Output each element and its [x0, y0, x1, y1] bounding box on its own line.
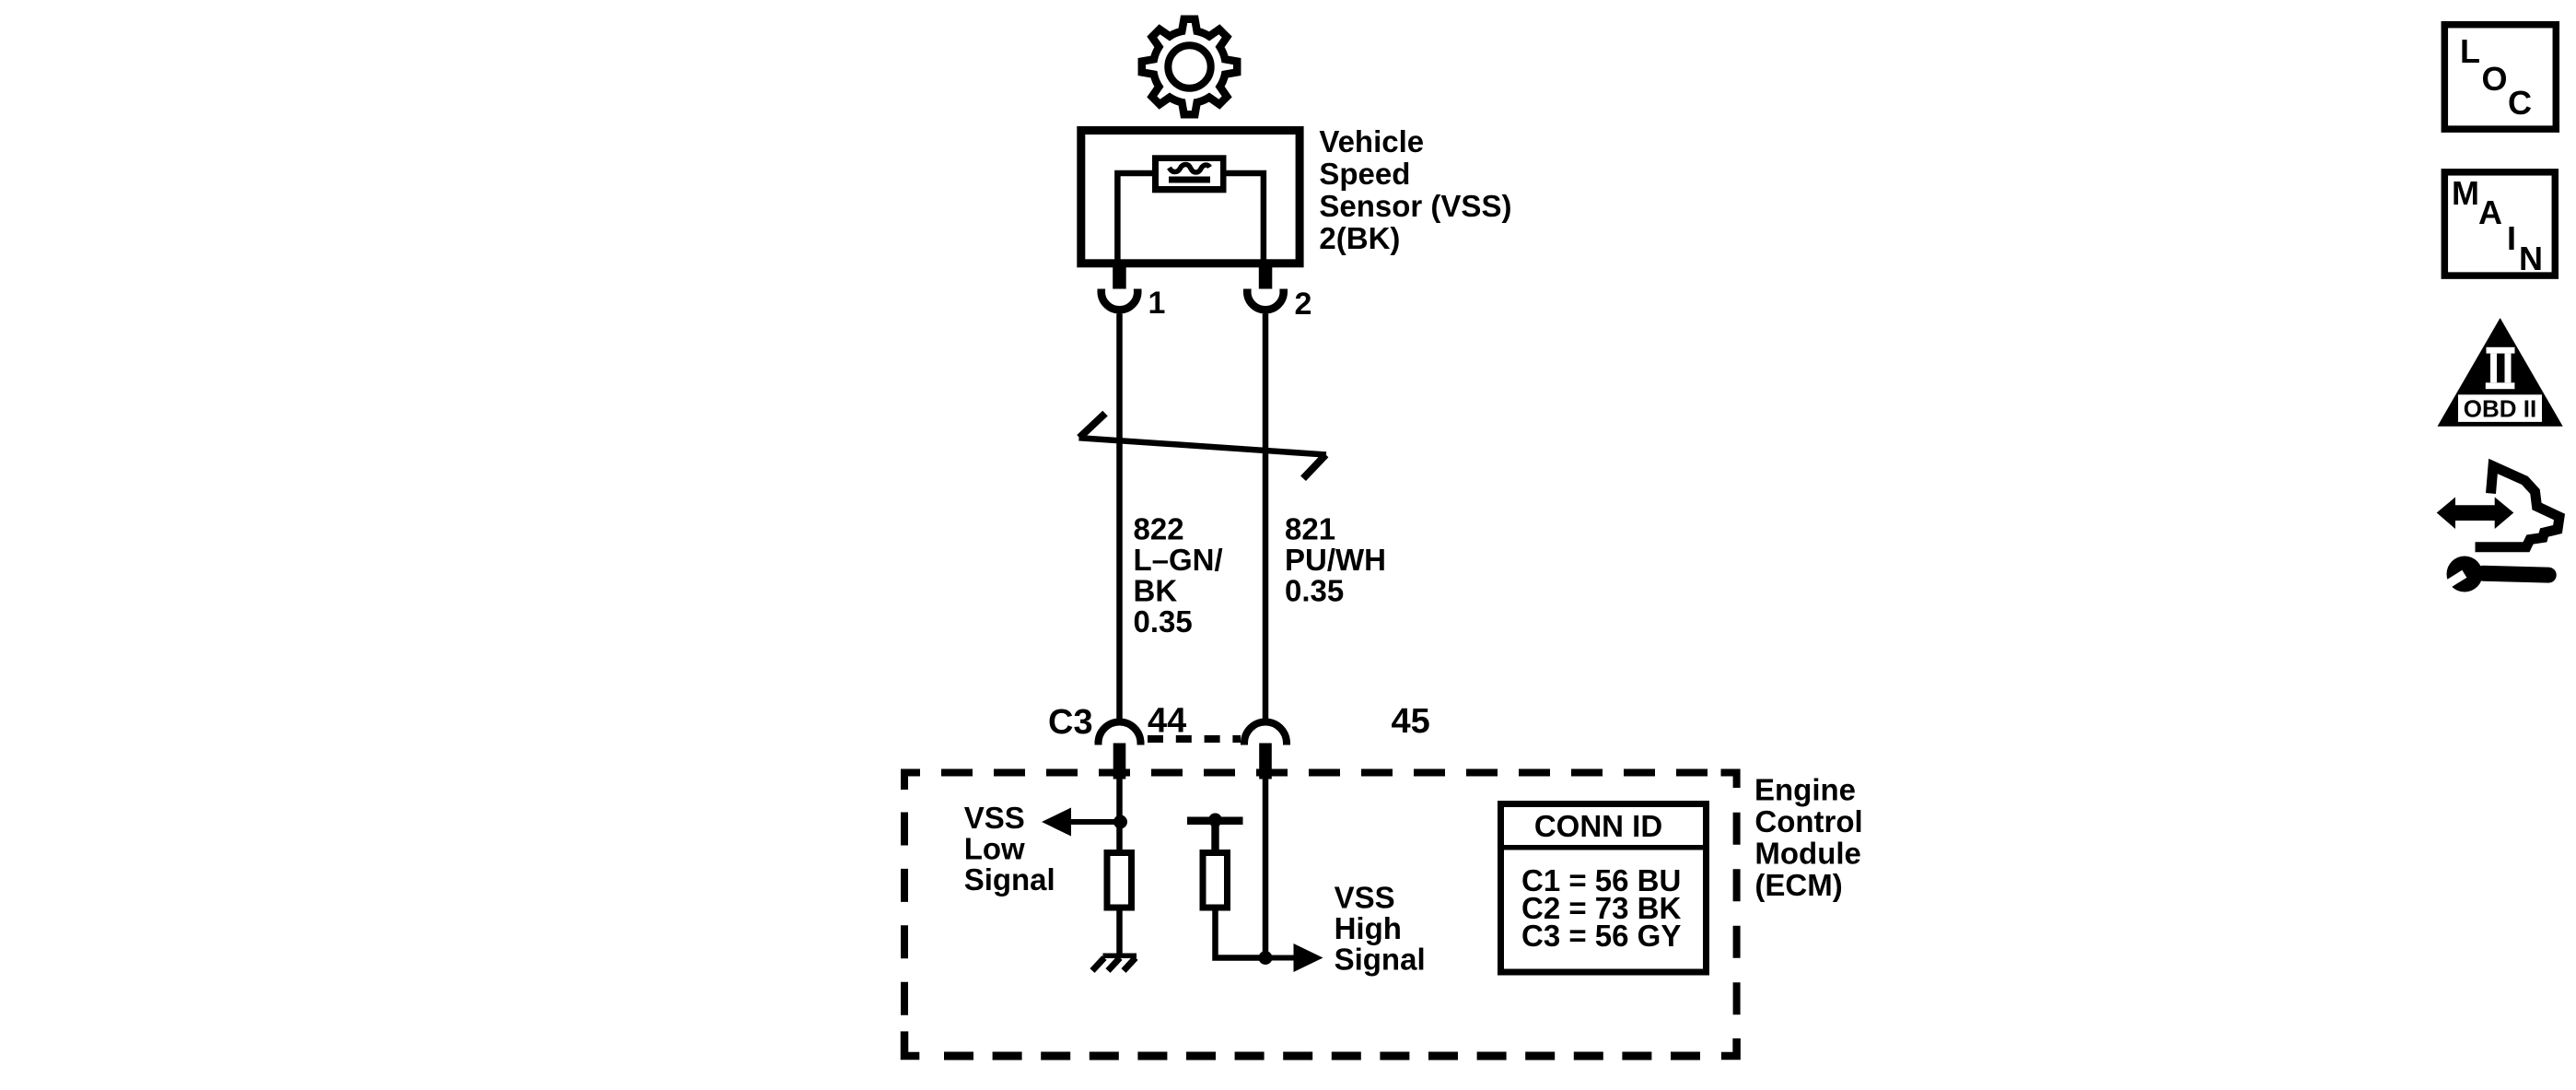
- sensor element (pickup coil symbol): [1152, 155, 1227, 193]
- wire pin45 down to junction: [1263, 779, 1269, 961]
- icon LOC box: [2444, 25, 2556, 129]
- svg-text:C: C: [2508, 84, 2532, 122]
- junction dot wire 45: [1259, 951, 1273, 965]
- gear icon (VSS drive gear): [1142, 19, 1237, 114]
- sensor internal wire left (pin 1): [1117, 173, 1152, 263]
- svg-text:M: M: [2452, 174, 2479, 212]
- icon connector service (arrow + outline + wrench): [2437, 466, 2559, 592]
- wire resistor R1 to ground: [1116, 908, 1123, 955]
- vehicle speed sensor box: [1081, 131, 1300, 264]
- icon OBD II triangle: [2438, 318, 2563, 427]
- svg-text:O: O: [2482, 60, 2508, 98]
- pin 45 stub into ECM: [1259, 744, 1272, 779]
- svg-text:OBD II: OBD II: [2464, 395, 2536, 423]
- arrow VSS High Signal (points right): [1265, 943, 1323, 972]
- pin stub 1 below sensor box: [1113, 265, 1126, 289]
- connector pin 2 (female cup): [1243, 289, 1252, 293]
- ECM border corner bottom-right: [1721, 1038, 1737, 1056]
- svg-text:45: 45: [1392, 702, 1430, 741]
- svg-text:44: 44: [1148, 702, 1186, 741]
- svg-text:A: A: [2478, 193, 2502, 231]
- resistor R1: [1107, 853, 1132, 908]
- wire 821 (pin2 to pin45): [1263, 314, 1269, 720]
- svg-text:2: 2: [1295, 287, 1312, 322]
- ECM border corner bottom-left: [904, 1031, 919, 1056]
- sensor internal wire right (pin 2): [1226, 173, 1264, 263]
- svg-text:I: I: [2507, 219, 2516, 257]
- ECM dashed border top: [941, 769, 1720, 777]
- stub tap bar to resistor R2: [1211, 822, 1218, 852]
- svg-text:CONN ID: CONN ID: [1534, 809, 1662, 843]
- resistor R2: [1203, 853, 1228, 908]
- ECM border corner top-right: [1721, 773, 1737, 789]
- junction dot on tap bar: [1208, 814, 1222, 827]
- icon MAIN box: [2444, 172, 2555, 277]
- harness crossing slash: [1079, 414, 1327, 479]
- ground (chassis): [1092, 954, 1136, 971]
- svg-text:C3: C3: [1048, 703, 1093, 742]
- connector C3 dashed separator: [1148, 735, 1241, 743]
- ECM dashed border right: [1733, 813, 1741, 1015]
- connector pin 1 (female cup): [1098, 289, 1106, 293]
- svg-text:1: 1: [1148, 286, 1166, 321]
- connector pin 45 (dome): [1241, 741, 1248, 745]
- ECM dashed border left: [901, 813, 908, 1033]
- svg-text:L: L: [2460, 32, 2480, 70]
- CONN ID table: [1498, 804, 1709, 973]
- pin stub 2 below sensor box: [1259, 265, 1273, 289]
- connector pin 44 (dome): [1095, 741, 1102, 745]
- arrow VSS Low Signal (points left): [1042, 808, 1122, 837]
- ECM dashed border bottom: [940, 1052, 1700, 1061]
- pin 44 stub into ECM: [1113, 744, 1126, 779]
- wire pin44 to resistor R1: [1116, 779, 1123, 850]
- wire 822 (pin1 to pin44): [1116, 314, 1123, 720]
- junction dot on wire 44: [1113, 815, 1127, 829]
- svg-text:N: N: [2519, 240, 2543, 277]
- wire resistor R2 to junction (L-shape): [1216, 908, 1266, 958]
- svg-text:C1 = 56 BUC2 = 73 BKC3 = 56 GY: C1 = 56 BUC2 = 73 BKC3 = 56 GY: [1521, 863, 1681, 953]
- ECM border corner top-left: [904, 773, 920, 791]
- internal tap bar above resistor R2: [1187, 817, 1243, 826]
